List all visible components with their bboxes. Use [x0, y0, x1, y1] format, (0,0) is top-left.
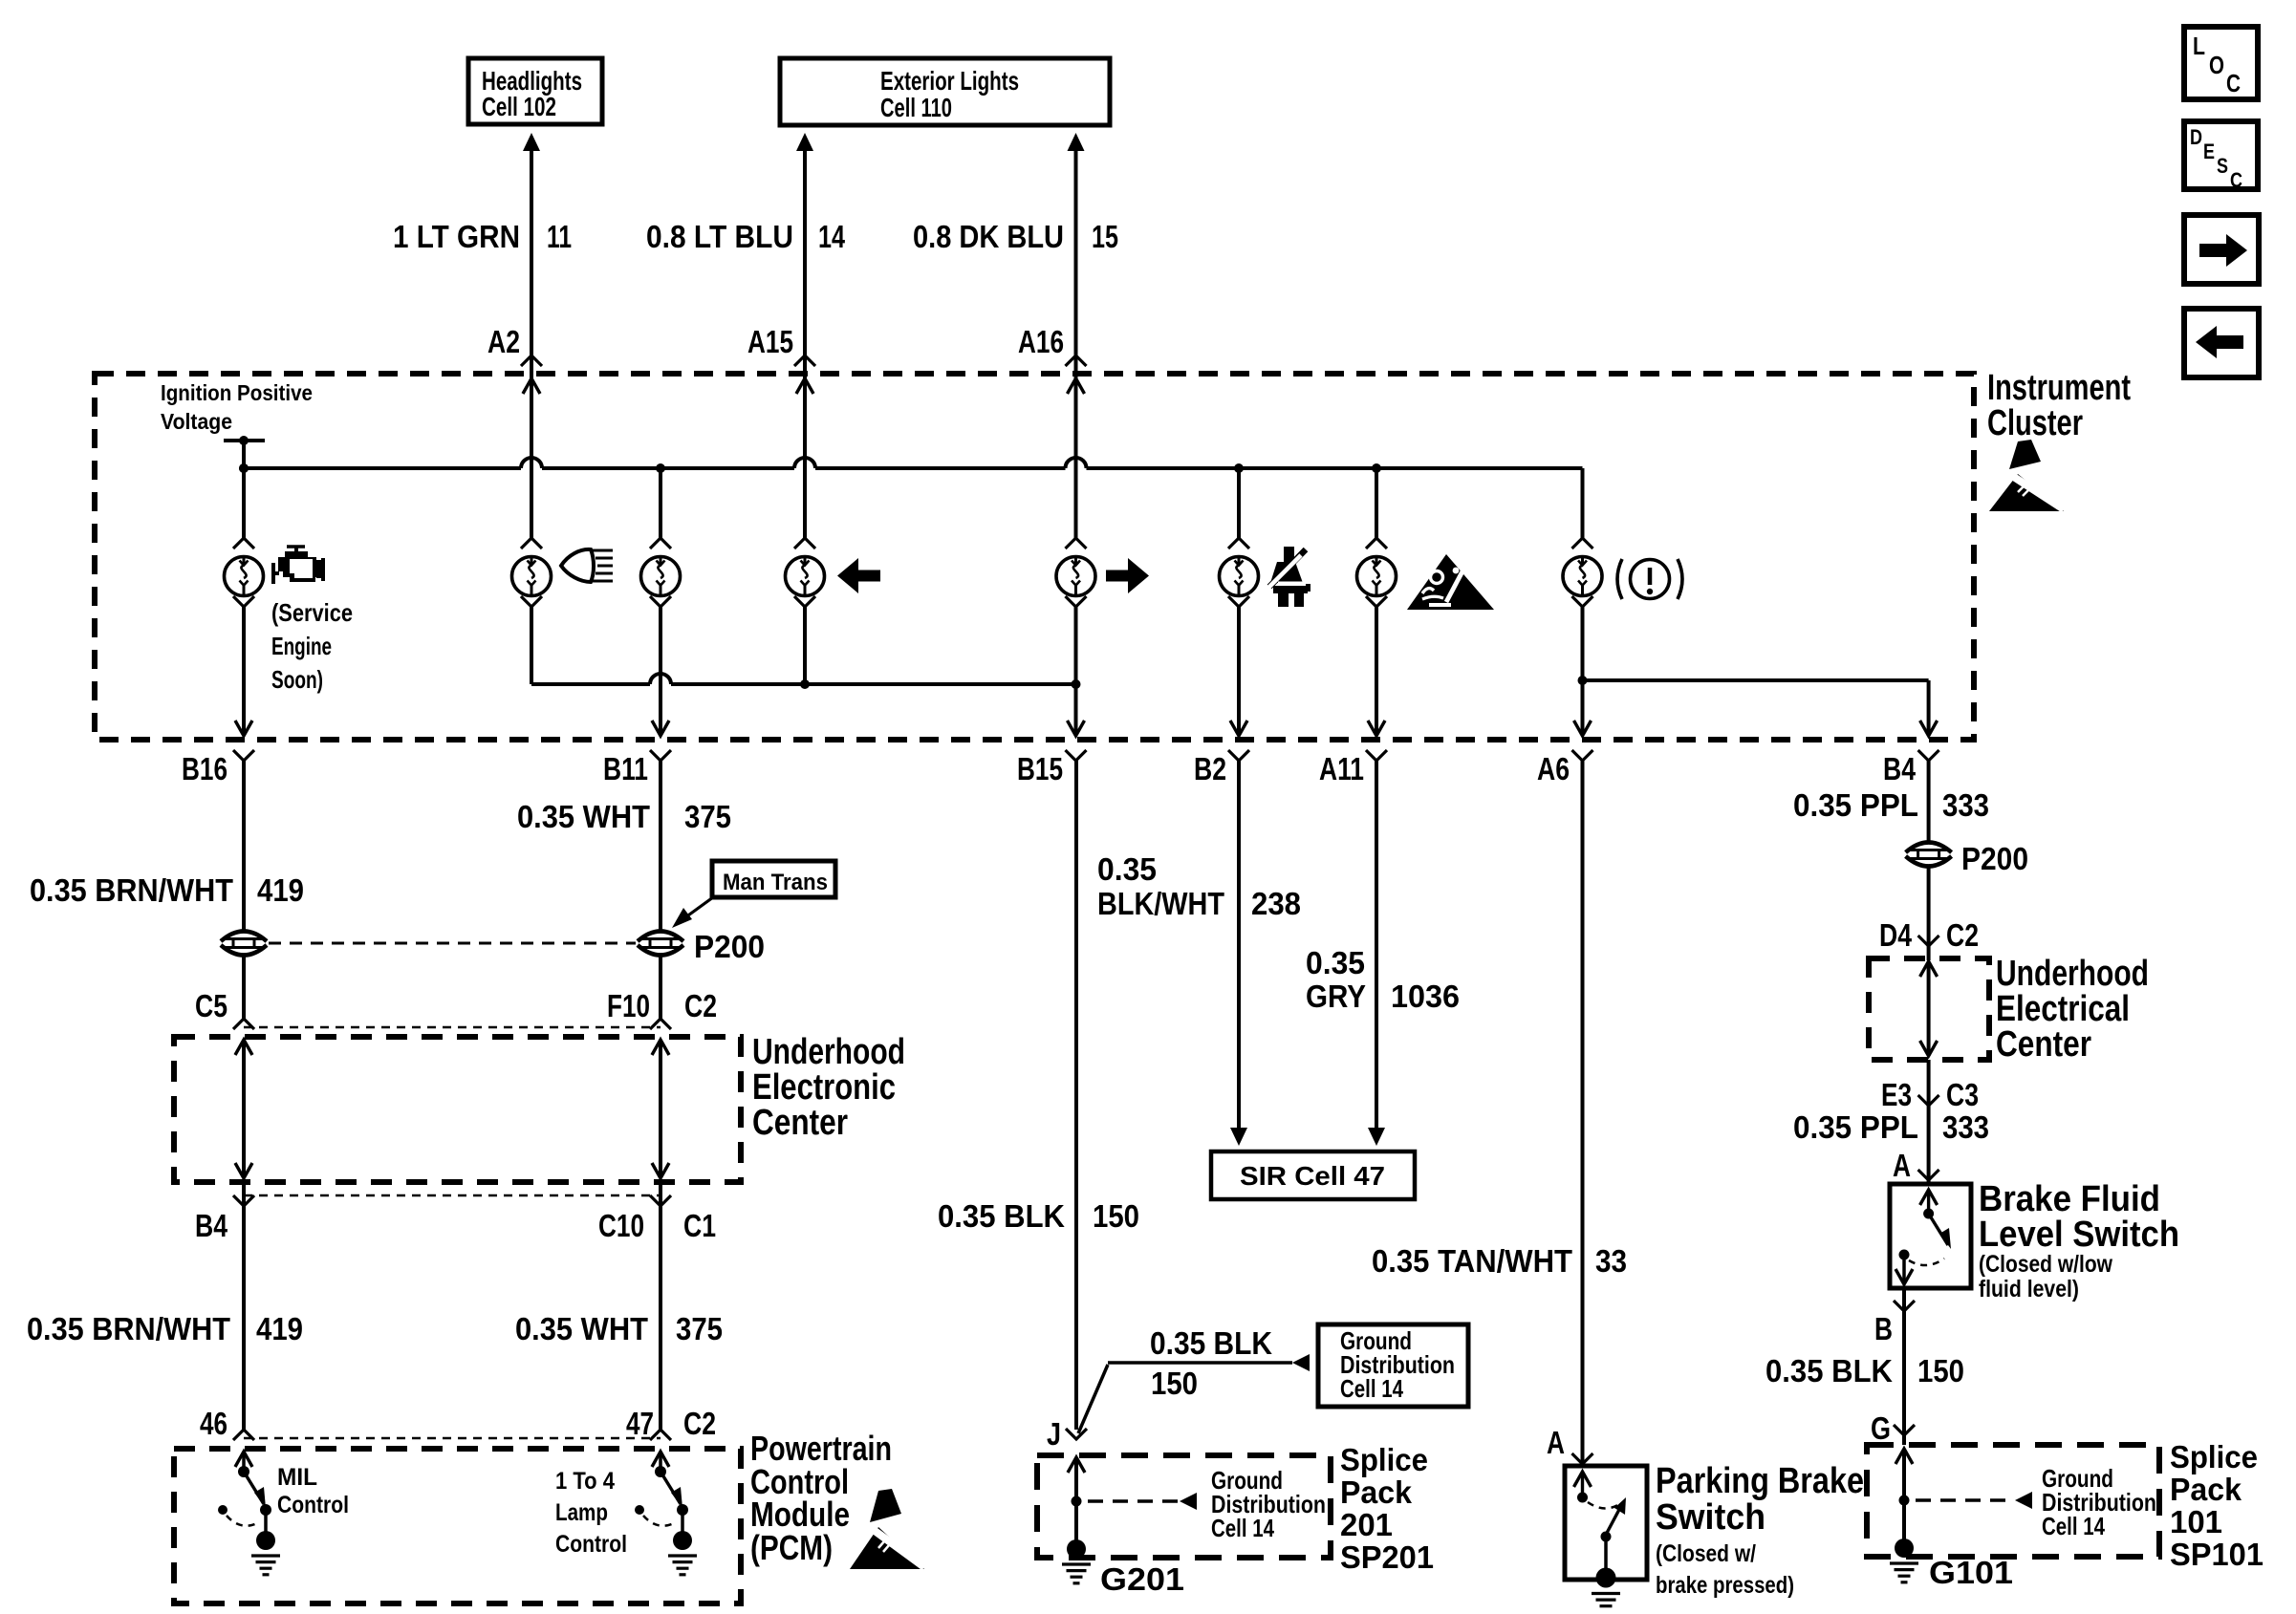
svg-text:Parking Brake: Parking Brake	[1656, 1461, 1864, 1501]
wire: tap to bus	[242, 441, 246, 538]
svg-text:0.35: 0.35	[1306, 945, 1365, 980]
svg-text:Exterior Lights: Exterior Lights	[880, 66, 1019, 96]
icon: brake warning (( ! ))	[1631, 560, 1670, 599]
svg-text:1 LT GRN: 1 LT GRN	[393, 219, 520, 254]
wire through Underhood Electrical Center	[1920, 961, 1938, 977]
svg-text:14: 14	[818, 219, 845, 254]
svg-text:0.8 LT BLU: 0.8 LT BLU	[646, 219, 793, 254]
connector marks at A15 (cluster top boundary)	[794, 355, 815, 366]
connector marks at B11 (cluster bottom boundary)	[652, 721, 669, 736]
svg-text:B11: B11	[603, 751, 648, 786]
junction dot SP201	[1072, 1496, 1082, 1507]
junction dot brake/B4 branch	[1578, 676, 1588, 685]
svg-text:B: B	[1874, 1311, 1893, 1346]
svg-text:brake pressed): brake pressed)	[1656, 1572, 1794, 1599]
svg-text:0.35 BRN/WHT: 0.35 BRN/WHT	[27, 1311, 230, 1346]
svg-text:A6: A6	[1537, 751, 1570, 786]
svg-text:Electronic: Electronic	[752, 1067, 896, 1108]
svg-text:0.35: 0.35	[1097, 851, 1157, 887]
svg-text:Control: Control	[277, 1492, 349, 1518]
lamp: MIL (Service Engine Soon) bulb	[233, 538, 254, 549]
box: Headlights Cell 102	[468, 58, 602, 124]
wire: B11 to P200 connector	[659, 761, 662, 932]
svg-text:Engine: Engine	[271, 632, 332, 660]
wire: airbag bulb to boundary	[1375, 607, 1378, 736]
svg-text:P200: P200	[1961, 841, 2028, 876]
component box: Brake Fluid Level Switch	[1890, 1184, 1971, 1288]
svg-text:C: C	[2230, 168, 2242, 192]
svg-text:SP101: SP101	[2170, 1537, 2264, 1572]
svg-text:0.8 DK BLU: 0.8 DK BLU	[913, 219, 1064, 254]
dashed link to ground distribution ref (SP101)	[1916, 1498, 2015, 1502]
svg-text:Cell 102: Cell 102	[482, 92, 556, 121]
svg-text:Center: Center	[1996, 1024, 2091, 1065]
switch: MIL Control driver	[235, 1452, 252, 1467]
svg-text:F10: F10	[607, 988, 650, 1023]
wire: right turn bulb through lamp bus to boundary	[1074, 607, 1078, 736]
svg-text:15: 15	[1092, 219, 1118, 254]
ESD sensitivity symbol (PCM)	[850, 1527, 924, 1569]
svg-text:fluid level): fluid level)	[1979, 1276, 2079, 1302]
lamp: brake indicator bulb	[1572, 538, 1593, 549]
svg-text:Cell 14: Cell 14	[1340, 1374, 1403, 1403]
connector mark E3/C3	[1918, 1095, 1939, 1106]
wire: ignition feed bus (segment 2)	[542, 466, 794, 470]
svg-text:Soon): Soon)	[271, 665, 323, 694]
interface dashed line C5-F10	[244, 1026, 661, 1029]
ESD sensitivity symbol (Instrument Cluster)	[1989, 474, 2064, 511]
svg-text:G201: G201	[1100, 1561, 1184, 1597]
wire: ignition feed bus (segment 3)	[815, 466, 1066, 470]
wire hop over A15 wire	[794, 458, 815, 468]
wire: bus to airbag bulb	[1375, 468, 1378, 538]
in-line connector on BRN/WHT wire	[221, 932, 267, 942]
switch: 1 To 4 Lamp Control driver	[652, 1452, 669, 1467]
connector marks at B15 (cluster bottom boundary)	[1068, 721, 1085, 736]
connector mark C5	[233, 1019, 254, 1029]
component box: Splice Pack 101 (dashed)	[1867, 1445, 2159, 1557]
icon: airbag warning	[1407, 554, 1494, 610]
svg-text:150: 150	[1093, 1198, 1139, 1234]
connector mark F10/C2	[650, 1019, 671, 1029]
connector mark B4 (UEC out left)	[233, 1195, 254, 1206]
legend box: left arrow	[2184, 309, 2259, 377]
junction dot at bus start	[239, 463, 249, 473]
svg-text:B16: B16	[182, 751, 227, 786]
svg-text:A2: A2	[487, 324, 520, 359]
junction dot bus to MIL bulb	[239, 463, 249, 473]
wire: bus to B11 bulb	[659, 468, 662, 538]
icon: high beam headlight	[561, 549, 594, 582]
svg-text:B15: B15	[1017, 751, 1063, 786]
svg-text:E: E	[2203, 140, 2215, 163]
box: Exterior Lights Cell 110	[780, 58, 1110, 125]
svg-text:333: 333	[1942, 787, 1989, 823]
svg-text:C5: C5	[195, 988, 227, 1023]
in-line connector P200 on WHT wire	[638, 932, 683, 942]
svg-text:101: 101	[2170, 1504, 2222, 1539]
svg-text:0.35 TAN/WHT: 0.35 TAN/WHT	[1372, 1243, 1572, 1279]
wire: lamp bus segment 1	[531, 682, 650, 686]
dashed link to ground distribution ref (SP201)	[1088, 1499, 1180, 1503]
svg-text:C10: C10	[598, 1208, 644, 1243]
connector marks at B4 (cluster bottom boundary)	[1920, 721, 1938, 736]
svg-text:J: J	[1047, 1416, 1061, 1452]
svg-text:Level Switch: Level Switch	[1979, 1215, 2179, 1255]
svg-text:419: 419	[256, 1311, 303, 1346]
icon: engine (Service Engine Soon)	[287, 545, 305, 549]
wire: A2 to Headlights (1 LT GRN 11)	[523, 133, 540, 151]
svg-text:Splice: Splice	[1340, 1442, 1428, 1477]
lamp: high beam indicator bulb	[521, 538, 542, 549]
svg-text:Instrument: Instrument	[1987, 368, 2131, 408]
reference arrow (SP101 ground distribution)	[2015, 1492, 2032, 1509]
wire: UEC to PCM pin 46	[242, 1182, 246, 1430]
svg-text:MIL: MIL	[277, 1464, 317, 1491]
lamp: airbag indicator bulb	[1366, 538, 1387, 549]
svg-text:L: L	[2193, 32, 2205, 60]
svg-text:0.35 WHT: 0.35 WHT	[517, 799, 650, 834]
svg-text:Control: Control	[555, 1531, 627, 1558]
connector mark A (brake fluid switch)	[1918, 1170, 1939, 1180]
svg-text:333: 333	[1942, 1109, 1989, 1145]
svg-text:1 To 4: 1 To 4	[555, 1468, 615, 1495]
svg-text:G: G	[1871, 1410, 1891, 1446]
ignition positive voltage tap bar	[224, 439, 265, 442]
lamp: seatbelt indicator bulb	[1228, 538, 1249, 549]
wire: UEC to PCM pin 47	[659, 1182, 662, 1430]
legend box: LOC	[2184, 27, 2258, 99]
connector mark pin 46	[233, 1430, 254, 1440]
interface dashed line 46-47	[244, 1437, 661, 1440]
svg-text:A15: A15	[747, 324, 793, 359]
wire hop over A2 wire	[521, 458, 542, 468]
svg-text:150: 150	[1917, 1353, 1964, 1388]
svg-text:Switch: Switch	[1656, 1497, 1765, 1538]
svg-text:0.35 PPL: 0.35 PPL	[1793, 787, 1918, 823]
component box: Parking Brake Switch	[1565, 1466, 1647, 1580]
connector marks at A6 (cluster bottom boundary)	[1574, 721, 1592, 736]
svg-text:Voltage: Voltage	[161, 409, 232, 434]
svg-text:(Closed w/low: (Closed w/low	[1979, 1251, 2112, 1278]
svg-text:(Service: (Service	[271, 598, 353, 627]
svg-text:SIR Cell 47: SIR Cell 47	[1240, 1161, 1385, 1191]
svg-text:0.35 PPL: 0.35 PPL	[1793, 1109, 1918, 1145]
connector mark J	[1066, 1429, 1087, 1439]
component box: Powertrain Control Module (dashed)	[174, 1449, 741, 1603]
reference arrow (SP201 ground distribution)	[1180, 1493, 1197, 1510]
wire through UEC (left)	[235, 1040, 252, 1055]
svg-text:Man Trans: Man Trans	[723, 870, 828, 895]
svg-text:238: 238	[1251, 886, 1301, 921]
lamp: 1-to-4 lamp bulb	[650, 538, 671, 549]
svg-text:11: 11	[547, 219, 572, 254]
svg-text:46: 46	[200, 1406, 227, 1441]
svg-text:A11: A11	[1319, 751, 1364, 786]
svg-text:Center: Center	[752, 1103, 848, 1143]
svg-text:0.35 BRN/WHT: 0.35 BRN/WHT	[30, 872, 233, 908]
wire: branch to ground distribution reference	[1108, 1361, 1292, 1365]
arrow into SIR box (B2)	[1230, 1128, 1247, 1146]
svg-text:0.35 BLK: 0.35 BLK	[1150, 1325, 1272, 1361]
svg-text:Lamp: Lamp	[555, 1499, 608, 1526]
svg-text:BLK/WHT: BLK/WHT	[1097, 886, 1224, 921]
svg-text:A16: A16	[1018, 324, 1064, 359]
svg-text:Ignition Positive: Ignition Positive	[161, 380, 313, 405]
svg-text:S: S	[2217, 154, 2228, 178]
svg-text:G101: G101	[1929, 1555, 2013, 1590]
svg-text:47: 47	[626, 1406, 654, 1441]
splice pack 101 internal wire	[1895, 1449, 1913, 1464]
connector mark C10/C1 (UEC out right)	[650, 1195, 671, 1206]
wire: lamp bus segment 2	[671, 682, 1076, 686]
wire: brake bulb to boundary	[1581, 607, 1585, 736]
svg-text:B2: B2	[1194, 751, 1226, 786]
svg-text:C3: C3	[1946, 1077, 1979, 1112]
svg-text:1036: 1036	[1391, 979, 1460, 1014]
svg-text:Electrical: Electrical	[1996, 989, 2130, 1029]
wire: B11 bulb to boundary	[659, 607, 662, 736]
component box: Splice Pack 201 (dashed)	[1037, 1455, 1331, 1558]
wire: UEC right to E3	[1927, 1060, 1931, 1106]
component box: Instrument Cluster (dashed)	[95, 374, 1974, 740]
svg-text:A: A	[1547, 1425, 1565, 1460]
wire: left turn bulb down to lamp bus	[803, 607, 807, 684]
svg-text:Splice: Splice	[2170, 1439, 2258, 1474]
wire: A16 to Exterior Lights (0.8 DK BLU 15)	[1068, 133, 1085, 151]
svg-text:201: 201	[1340, 1507, 1393, 1542]
svg-text:Pack: Pack	[2170, 1472, 2242, 1507]
wire: connector to C5	[242, 955, 246, 1019]
wire: ignition feed bus (segment 4)	[1087, 466, 1583, 470]
connector mark pin 47	[650, 1430, 671, 1440]
svg-text:Underhood: Underhood	[752, 1032, 905, 1072]
connector mark B	[1894, 1301, 1915, 1311]
svg-text:O: O	[2209, 51, 2224, 79]
svg-text:B4: B4	[195, 1208, 228, 1243]
junction dot SP101	[1899, 1496, 1910, 1506]
component box: Underhood Electrical Center (dashed)	[1869, 958, 1989, 1060]
switch: brake fluid level	[1920, 1190, 1938, 1205]
junction dot bus to airbag bulb	[1372, 463, 1381, 473]
svg-text:0.35 BLK: 0.35 BLK	[1765, 1353, 1893, 1388]
svg-text:375: 375	[684, 799, 731, 834]
svg-text:Cell 14: Cell 14	[1211, 1514, 1274, 1542]
icon: right turn arrow	[1106, 558, 1149, 593]
callout box: Man Trans	[712, 861, 835, 897]
arrow into SIR box (A11)	[1368, 1128, 1385, 1146]
legend box: DESC	[2184, 121, 2258, 189]
svg-text:(PCM): (PCM)	[750, 1528, 833, 1567]
svg-text:Pack: Pack	[1340, 1474, 1413, 1510]
wire: branch to B4 exit	[1583, 678, 1929, 682]
icon: seatbelt	[1284, 547, 1294, 563]
connector mark A (parking brake)	[1572, 1453, 1593, 1464]
svg-text:33: 33	[1595, 1243, 1627, 1279]
lamp: left turn indicator bulb	[794, 538, 815, 549]
ground G101	[1895, 1539, 1914, 1558]
wire: B15 to J	[1074, 761, 1078, 1430]
wire hop over B11 wire (lamp bus)	[650, 674, 671, 684]
wire: P200 to D4	[1927, 866, 1931, 946]
junction dot bus to B11 bulb	[656, 463, 665, 473]
wire: high beam bulb to lamp bus	[530, 607, 533, 684]
wire: seatbelt bulb to boundary	[1237, 607, 1241, 736]
svg-text:B4: B4	[1883, 751, 1917, 786]
wire: bus corner down to brake bulb	[1581, 468, 1585, 538]
wire through UEC (right)	[652, 1040, 669, 1055]
wire: B4 to P200	[1927, 761, 1931, 843]
connector mark G	[1894, 1425, 1915, 1435]
wire: D4 to UEC right box	[1927, 946, 1931, 960]
svg-text:0.35 BLK: 0.35 BLK	[938, 1198, 1065, 1234]
wire: P200 to F10	[659, 955, 662, 1019]
connector marks at B2 (cluster bottom boundary)	[1230, 721, 1247, 736]
wire: A11 to SIR Cell 47	[1375, 761, 1378, 1128]
splice pack 201 internal wire	[1068, 1457, 1085, 1473]
svg-text:D4: D4	[1879, 917, 1913, 953]
wire: J diagonal branch	[1078, 1365, 1108, 1433]
arrow from Man Trans box to P200	[682, 897, 713, 920]
wire: ignition feed bus (segment 1)	[244, 466, 521, 470]
connector marks at A11 (cluster bottom boundary)	[1368, 721, 1385, 736]
svg-text:A: A	[1893, 1148, 1911, 1183]
reference box: Ground Distribution Cell 14	[1318, 1324, 1468, 1407]
wire: MIL bulb to boundary	[242, 607, 246, 736]
svg-text:C2: C2	[1946, 917, 1979, 953]
svg-text:Cell 14: Cell 14	[2042, 1512, 2105, 1540]
connector mark D4/C2	[1918, 936, 1939, 946]
svg-text:Cluster: Cluster	[1987, 403, 2083, 443]
svg-text:C: C	[2226, 69, 2241, 97]
svg-text:SP201: SP201	[1340, 1539, 1434, 1575]
wire: A6 to parking brake switch	[1581, 761, 1585, 1464]
switch: parking brake	[1574, 1472, 1592, 1487]
dashed pass-through link between connectors	[269, 942, 636, 945]
wire: E3 to brake fluid level switch	[1927, 1106, 1931, 1184]
wire: bus to seatbelt bulb	[1237, 468, 1241, 538]
wire: B2 to SIR Cell 47	[1237, 761, 1241, 1128]
connector marks at A16 (cluster top boundary)	[1066, 355, 1087, 366]
connector marks at B16 (cluster bottom boundary)	[235, 721, 252, 736]
wire: B16 to P200 connector	[242, 761, 246, 932]
svg-text:419: 419	[257, 872, 304, 908]
interface dashed line B4-C10	[244, 1194, 661, 1197]
svg-text:C2: C2	[683, 1406, 716, 1441]
wire: brake fluid switch to G	[1902, 1288, 1906, 1445]
reference box: SIR Cell 47	[1211, 1151, 1415, 1199]
lamp: right turn indicator bulb	[1066, 538, 1087, 549]
ground G201	[1067, 1539, 1086, 1559]
svg-text:C1: C1	[683, 1208, 716, 1243]
svg-text:P200: P200	[694, 929, 765, 964]
svg-text:C2: C2	[684, 988, 717, 1023]
svg-text:(Closed w/: (Closed w/	[1656, 1540, 1756, 1567]
legend box: right arrow	[2184, 215, 2259, 284]
wire hop over A16 wire	[1066, 458, 1087, 468]
component box: Underhood Electronic Center (dashed)	[174, 1037, 741, 1182]
svg-text:375: 375	[676, 1311, 723, 1346]
in-line connector P200 (B4 wire)	[1906, 843, 1952, 853]
connector marks at A2 (cluster top boundary)	[521, 355, 542, 366]
svg-text:0.35 WHT: 0.35 WHT	[515, 1311, 648, 1346]
svg-text:150: 150	[1151, 1366, 1198, 1401]
junction dot lamp bus / right turn wire	[1072, 679, 1081, 689]
wire: A15 to Exterior Lights (0.8 LT BLU 14)	[796, 133, 813, 151]
svg-text:Cell 110: Cell 110	[880, 93, 952, 122]
icon: left turn arrow	[837, 558, 880, 593]
svg-text:GRY: GRY	[1306, 979, 1366, 1014]
svg-text:Underhood: Underhood	[1996, 954, 2149, 994]
svg-text:E3: E3	[1881, 1077, 1912, 1112]
svg-text:D: D	[2190, 125, 2202, 149]
svg-text:Brake Fluid: Brake Fluid	[1979, 1179, 2160, 1219]
reference arrow (to Ground Distribution Cell 14)	[1292, 1354, 1310, 1371]
junction dot bus to seatbelt bulb	[1234, 463, 1244, 473]
